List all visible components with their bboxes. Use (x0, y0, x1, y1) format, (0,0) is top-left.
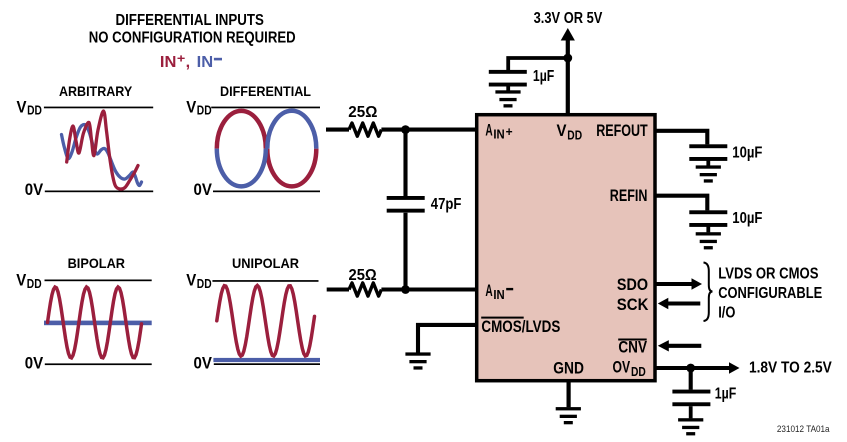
panel2 differential red waveform (217, 111, 316, 187)
svg-text:I/O: I/O (718, 305, 735, 322)
svg-text:231012 TA01a: 231012 TA01a (777, 424, 830, 435)
svg-text:SDO: SDO (617, 275, 648, 294)
svg-text:47pF: 47pF (431, 196, 462, 213)
capacitor C1 value 47pF (431, 196, 462, 213)
svg-text:CMOS/LVDS: CMOS/LVDS (481, 317, 560, 336)
wire cap4 to ground (706, 226, 710, 232)
panel3 0V rail (45, 363, 152, 365)
svg-text:UNIPOLAR: UNIPOLAR (232, 255, 299, 271)
capacitor C5 1uF (OVDD) (672, 390, 710, 407)
svg-text:DD: DD (197, 277, 212, 291)
label I/O (718, 305, 735, 322)
wire vertical to 47pF (403, 130, 407, 196)
wire AIN- input segment (327, 287, 476, 291)
svg-text:V: V (186, 271, 197, 290)
label 1.8V TO 2.5V (749, 360, 832, 377)
svg-text:CONFIGURABLE: CONFIGURABLE (718, 285, 822, 302)
capacitor C4 10uF (REFIN) (689, 210, 727, 227)
wire cap3 to ground (706, 160, 710, 165)
pin label AIN- (485, 281, 513, 302)
label CONFIGURABLE (718, 285, 822, 302)
svg-text:10µF: 10µF (732, 145, 762, 162)
node junction AIN- (401, 285, 410, 294)
panel3 VDD rail (45, 280, 152, 282)
svg-text:,: , (186, 54, 191, 71)
svg-text:1.8V TO 2.5V: 1.8V TO 2.5V (749, 360, 832, 377)
panel1 VDD rail (44, 107, 153, 109)
ground (1uF supply bypass) (495, 90, 520, 107)
panel4 0V rail (214, 363, 320, 365)
pin label CMOS/LVDS with overline on CMOS (481, 317, 560, 336)
panel4 VDD rail (212, 280, 318, 282)
supply label 3.3V OR 5V (534, 10, 603, 27)
panel1 arbitrary red waveform (67, 111, 138, 189)
svg-text:V: V (186, 97, 197, 116)
svg-text:SCK: SCK (617, 295, 649, 314)
wire GND pin down (566, 381, 570, 407)
svg-text:A: A (485, 281, 492, 300)
resistor R2 value 25ohm (349, 267, 377, 284)
ground (CMOS/LVDS) (405, 352, 430, 369)
ground (REFIN cap) (696, 232, 721, 249)
resistor R2 25ohm (AIN-) (349, 283, 381, 296)
panel4 0V label (194, 353, 213, 372)
SDO output arrow (656, 278, 702, 289)
svg-text:REFOUT: REFOUT (596, 121, 648, 140)
svg-text:GND: GND (553, 358, 584, 377)
svg-text:IN: IN (493, 288, 504, 302)
svg-text:+: + (506, 124, 513, 139)
svg-text:REFIN: REFIN (610, 186, 648, 205)
svg-text:25Ω: 25Ω (348, 104, 377, 121)
wire CMOS/LVDS pin to ground (418, 325, 476, 353)
pin label AIN+ (485, 121, 513, 142)
CNV input arrow (658, 340, 702, 351)
label LVDS OR CMOS (718, 266, 818, 283)
title line 2 (89, 30, 296, 47)
node OVDD junction (686, 364, 695, 373)
pin label SDO (617, 275, 648, 294)
capacitor C5 value 1uF (715, 385, 737, 402)
node junction AIN+ (401, 125, 410, 134)
pin label OVDD (613, 358, 646, 380)
capacitor C2 value 1uF (533, 68, 554, 85)
capacitor C3 10uF (REFOUT) (689, 144, 727, 161)
svg-text:IN: IN (197, 54, 214, 71)
svg-text:DD: DD (567, 128, 582, 142)
pin label CNV with overline (618, 338, 647, 357)
wire cap5 to ground (689, 406, 693, 418)
panel2 VDD rail (211, 107, 320, 109)
svg-text:LVDS OR CMOS: LVDS OR CMOS (718, 266, 818, 283)
waveform panel title BIPOLAR (68, 255, 125, 271)
svg-text:1µF: 1µF (533, 68, 554, 85)
wire REFOUT to cap (656, 131, 707, 145)
brace for I/O group (704, 263, 713, 322)
panel1 0V label (25, 180, 44, 199)
panel3 blue common-mode line (44, 321, 152, 326)
wire 1uF cap to ground (506, 86, 510, 91)
panel2 0V label (194, 180, 213, 199)
panel2 differential blue waveform (217, 111, 316, 187)
svg-text:A: A (485, 121, 492, 140)
waveform panel title ARBITRARY (59, 83, 133, 99)
ground (GND pin) (556, 407, 581, 424)
svg-text:V: V (17, 97, 28, 116)
supply arrow up (561, 28, 575, 41)
title line 1 (116, 12, 265, 29)
node supply junction (563, 54, 572, 63)
panel4 blue zero line (213, 358, 320, 362)
svg-text:+: + (177, 52, 185, 66)
panel4 unipolar red sine waveform (217, 286, 315, 357)
svg-text:DIFFERENTIAL: DIFFERENTIAL (220, 83, 311, 99)
svg-text:BIPOLAR: BIPOLAR (68, 255, 125, 271)
svg-text:DIFFERENTIAL INPUTS: DIFFERENTIAL INPUTS (116, 12, 265, 29)
SCK input arrow (658, 298, 701, 309)
wire supply to 1uF cap (508, 58, 568, 70)
footer note 231012 TA01a (777, 424, 830, 435)
panel2 0V rail (213, 191, 320, 193)
wire 47pF to AIN- junction (403, 213, 407, 290)
pin label VDD (IC) (557, 121, 583, 142)
wire REFIN to cap (656, 196, 707, 211)
wire OVDD junction to 1uF (689, 368, 693, 390)
wire AIN+ input segment (326, 128, 476, 132)
ground (OVDD cap) (678, 418, 703, 435)
svg-text:0V: 0V (25, 180, 44, 199)
svg-text:0V: 0V (194, 180, 213, 199)
panel1 VDD label (17, 97, 42, 117)
svg-text:3.3V OR 5V: 3.3V OR 5V (534, 10, 603, 27)
pin label REFOUT (596, 121, 648, 140)
panel1 arbitrary blue waveform (62, 125, 142, 186)
svg-text:OV: OV (613, 358, 631, 377)
svg-text:25Ω: 25Ω (349, 267, 377, 284)
panel4 VDD label (186, 271, 211, 291)
svg-text:1µF: 1µF (715, 385, 737, 402)
svg-text:0V: 0V (25, 353, 44, 372)
resistor R1 25ohm (AIN+) (349, 123, 381, 136)
ground (REFOUT cap) (696, 165, 721, 182)
node IN- label (197, 54, 222, 71)
svg-text:ARBITRARY: ARBITRARY (59, 83, 133, 99)
svg-text:0V: 0V (194, 353, 213, 372)
pin label GND (553, 358, 584, 377)
svg-text:DD: DD (631, 365, 646, 379)
pin label SCK (617, 295, 649, 314)
svg-text:V: V (16, 271, 27, 290)
svg-text:IN: IN (493, 128, 504, 142)
waveform panel title UNIPOLAR (232, 255, 299, 271)
panel2 VDD label (186, 97, 211, 117)
panel3 0V label (25, 353, 44, 372)
capacitor C3 value 10uF (732, 145, 762, 162)
capacitor C2 1uF (489, 70, 527, 87)
svg-text:DD: DD (27, 277, 42, 291)
panel1 0V rail (45, 191, 153, 193)
svg-text:DD: DD (27, 104, 42, 118)
node IN+ label (160, 52, 190, 72)
svg-text:DD: DD (197, 104, 212, 118)
resistor R1 value 25ohm (348, 104, 377, 121)
svg-text:NO CONFIGURATION REQUIRED: NO CONFIGURATION REQUIRED (89, 30, 296, 47)
wire supply vertical to VDD pin (566, 38, 570, 114)
capacitor C1 47pF (387, 196, 425, 213)
svg-text:IN: IN (160, 54, 177, 71)
capacitor C4 value 10uF (732, 210, 762, 227)
wire OVDD out (656, 362, 740, 373)
pin label REFIN (610, 186, 648, 205)
panel3 VDD label (16, 271, 41, 291)
panel3 bipolar red sine waveform (48, 287, 142, 358)
op-amp/ADC IC U1 body (477, 115, 655, 381)
svg-text:V: V (557, 121, 568, 140)
svg-text:10µF: 10µF (732, 210, 762, 227)
waveform panel title DIFFERENTIAL (220, 83, 311, 99)
